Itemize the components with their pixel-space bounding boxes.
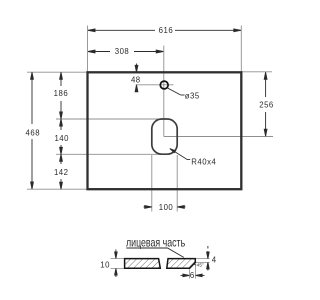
svg-text:140: 140 bbox=[54, 134, 69, 143]
svg-text:48: 48 bbox=[131, 75, 141, 84]
svg-text:45°: 45° bbox=[197, 263, 204, 268]
svg-text:468: 468 bbox=[26, 128, 41, 137]
svg-text:616: 616 bbox=[159, 26, 174, 35]
svg-text:ø35: ø35 bbox=[185, 91, 200, 100]
svg-text:10: 10 bbox=[100, 261, 110, 270]
svg-text:256: 256 bbox=[259, 101, 274, 110]
svg-text:308: 308 bbox=[115, 47, 130, 56]
svg-text:186: 186 bbox=[54, 89, 69, 98]
svg-text:100: 100 bbox=[159, 203, 174, 212]
svg-text:4: 4 bbox=[212, 255, 217, 264]
svg-text:лицевая часть: лицевая часть bbox=[126, 235, 185, 249]
svg-text:6: 6 bbox=[190, 271, 195, 280]
svg-text:R40x4: R40x4 bbox=[191, 157, 216, 166]
svg-text:142: 142 bbox=[54, 168, 69, 177]
